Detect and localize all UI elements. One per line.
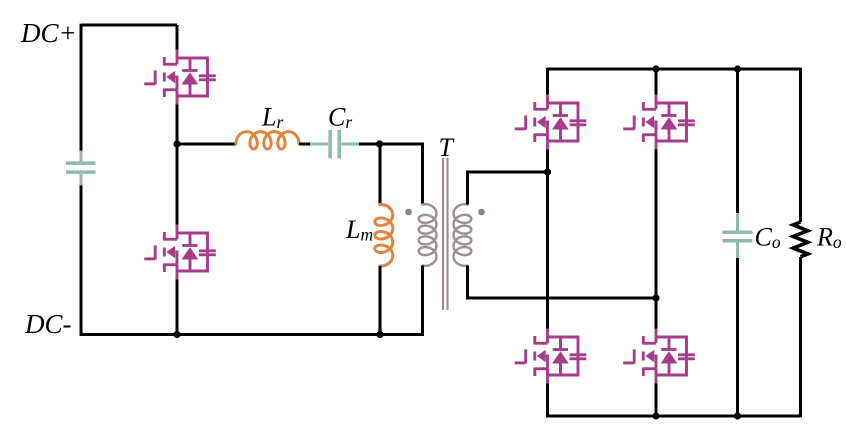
transistor Q4 (leg2 top MOSFET) (623, 95, 695, 150)
wire: leg1 top segment (546, 68, 549, 95)
transistor Q6 (leg2 bottom MOSFET) (623, 329, 695, 384)
wire: Lr to Cr (299, 143, 311, 146)
capacitor Co (teal) (723, 213, 753, 258)
wire: right top rail (548, 68, 801, 71)
svg-text:Cr: Cr (328, 103, 352, 133)
inductor Lm (orange vertical coil) (375, 204, 393, 266)
transistor Q1 (left top MOSFET) (144, 50, 216, 105)
svg-text:T: T (439, 133, 455, 162)
wire: left vertical upper segment (80, 24, 83, 151)
wire: leg2 bottom segment (655, 384, 658, 417)
node: half-bridge midpoint junction (173, 140, 180, 147)
wire: half-bridge leg middle segment (176, 105, 179, 225)
inductor Lr (orange coil) (236, 132, 299, 150)
svg-text:Co: Co (755, 223, 781, 253)
node: junction dot secondary bottom at leg2 (652, 294, 659, 301)
capacitor Cr (teal) (310, 130, 359, 158)
wire: leg2 top segment (655, 69, 658, 95)
wire: leg2 middle segment (655, 150, 658, 329)
node: junction dot top rail Co (734, 65, 741, 72)
resistor Ro (zigzag) (793, 222, 808, 257)
wire: secondary top lead to rectifier leg1 (468, 172, 548, 205)
wire: leg1 bottom segment (546, 384, 549, 418)
transistor Q2 (left bottom MOSFET) (144, 225, 216, 280)
wire: Lm branch top (379, 144, 382, 204)
svg-text:Lr: Lr (261, 103, 283, 133)
wire: bottom-left rail DC- (81, 333, 423, 336)
wire: Ro branch top (799, 68, 802, 222)
transformer secondary polarity dot (478, 209, 485, 216)
transistor Q5 (leg1 bottom MOSFET) (515, 329, 587, 384)
node: junction dot bottom rail Co (734, 412, 741, 419)
transformer primary polarity dot (405, 209, 412, 216)
wire: half-bridge leg top segment (176, 25, 179, 50)
wire: leg1 middle segment (546, 150, 549, 329)
transformer T primary winding (gray coil) (419, 204, 437, 266)
svg-text:DC-: DC- (24, 309, 72, 339)
node: junction dot top rail leg2 (652, 65, 659, 72)
wire: top-left rail DC+ (81, 24, 177, 27)
wire: secondary bottom lead to rectifier leg2 (468, 266, 657, 299)
wire: half-bridge leg bottom segment (176, 280, 179, 335)
wire: primary bottom lead (421, 266, 424, 337)
wire: Ro branch bottom (799, 257, 802, 417)
wire: Co branch top (736, 69, 739, 213)
wire: Co branch bottom (736, 258, 739, 416)
wire: Cr to node A (359, 143, 380, 146)
wire: midpoint to Lr (177, 143, 236, 146)
node: junction dot bottom rail leg2 (652, 412, 659, 419)
node: junction dot secondary top at leg1 (544, 168, 551, 175)
wire: right bottom rail (548, 415, 801, 418)
svg-text:DC+: DC+ (20, 18, 77, 48)
node A: junction dot after Cr (376, 140, 383, 147)
capacitor DC-link (teal) (66, 151, 96, 186)
svg-text:Lm: Lm (345, 215, 373, 245)
svg-text:Ro: Ro (816, 223, 842, 253)
transformer T secondary winding (gray coil) (454, 204, 472, 266)
wire: left vertical lower segment (80, 186, 83, 337)
node: junction dot leg bottom on DC- rail (173, 331, 180, 338)
wire: Lm branch bottom (379, 266, 382, 335)
transistor Q3 (leg1 top MOSFET) (515, 95, 587, 150)
wire: node A to transformer primary top corner (380, 144, 423, 204)
transformer core lines (443, 158, 448, 310)
node: junction dot Lm bottom on DC- rail (376, 331, 383, 338)
